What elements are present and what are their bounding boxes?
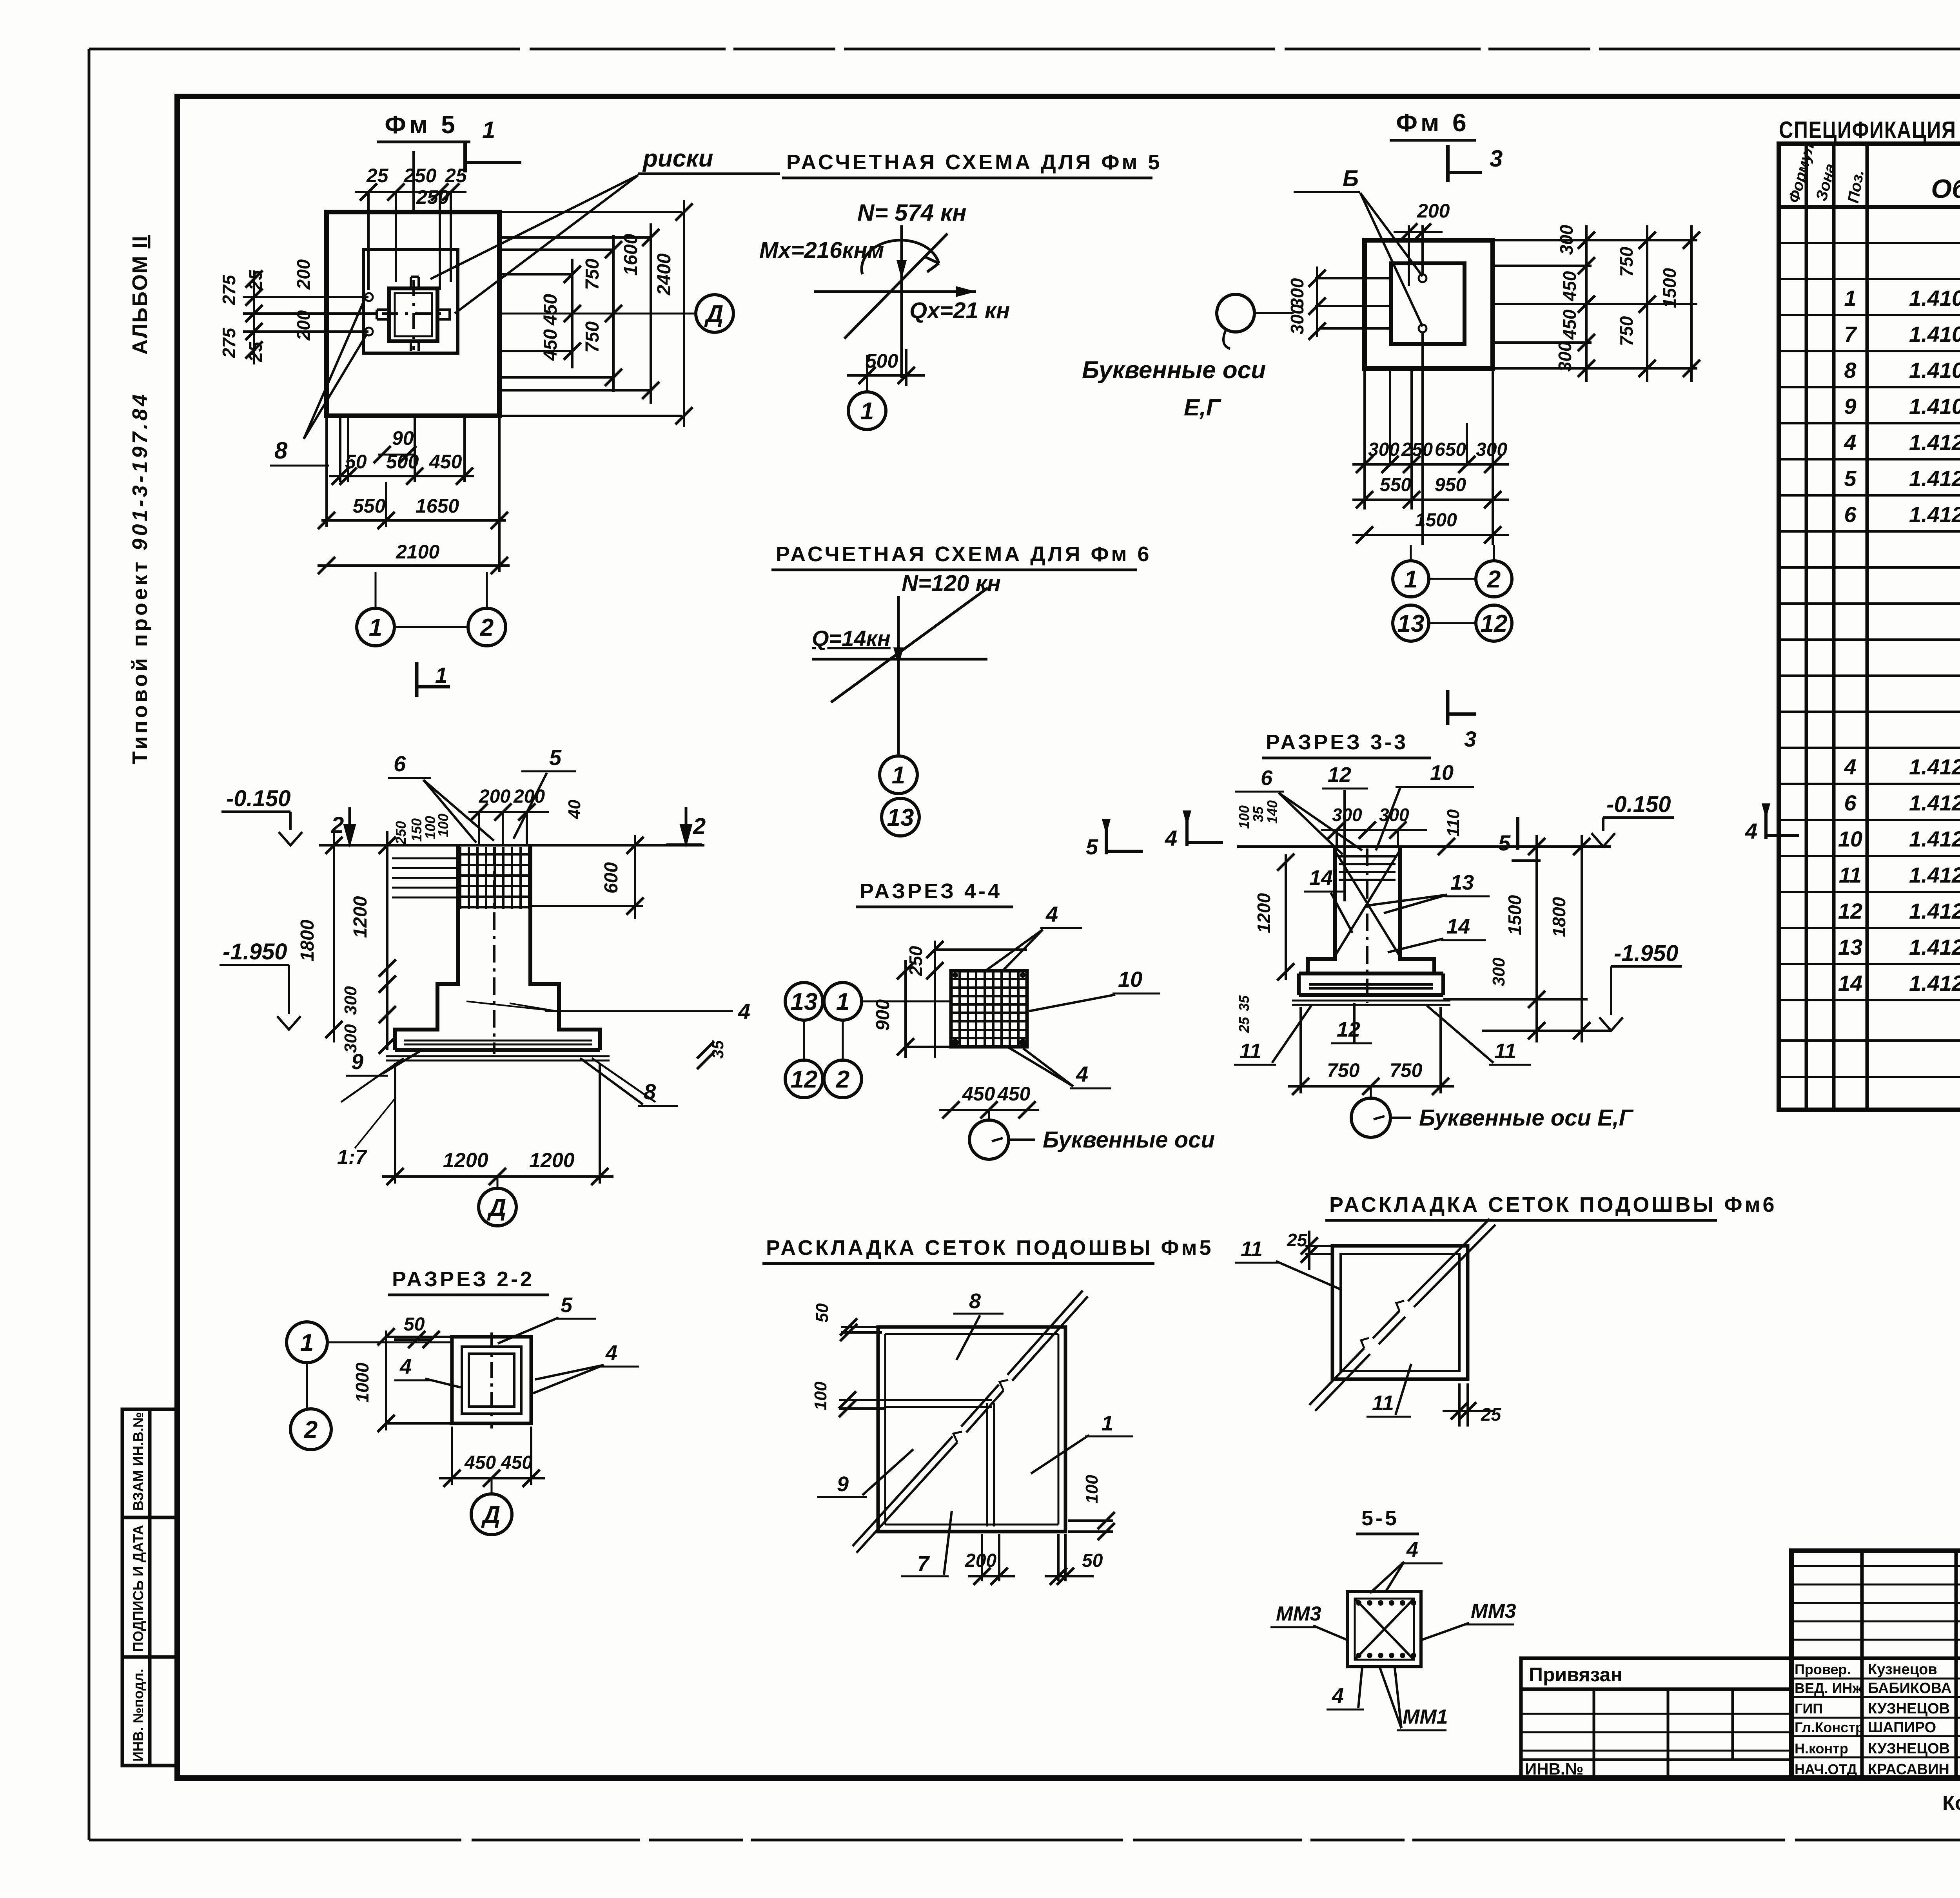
- svg-text:275: 275: [219, 274, 239, 305]
- svg-text:25: 25: [366, 165, 389, 187]
- svg-text:1: 1: [1102, 1412, 1113, 1435]
- svg-text:200: 200: [513, 786, 545, 807]
- svg-text:13: 13: [1397, 610, 1425, 637]
- pit slopes: [341, 1058, 655, 1102]
- svg-text:Привязан: Привязан: [1529, 1664, 1622, 1686]
- svg-text:550: 550: [353, 495, 386, 517]
- svg-text:650: 650: [1435, 439, 1466, 460]
- svg-text:12: 12: [1328, 763, 1351, 787]
- svg-text:1: 1: [482, 117, 495, 143]
- svg-text:100: 100: [1082, 1475, 1102, 1504]
- svg-text:750: 750: [1616, 247, 1637, 277]
- svg-text:4: 4: [1076, 1062, 1088, 1086]
- svg-text:1500: 1500: [1659, 268, 1680, 308]
- svg-text:300: 300: [1287, 278, 1307, 308]
- svg-text:450: 450: [1559, 271, 1580, 301]
- svg-text:Д: Д: [704, 301, 724, 328]
- svg-text:450: 450: [464, 1452, 496, 1473]
- svg-text:1.412.1-4.080: 1.412.1-4.080: [1909, 935, 1960, 959]
- axis circles: [1411, 545, 1494, 623]
- svg-text:35: 35: [1250, 806, 1266, 822]
- svg-text:750: 750: [1616, 316, 1637, 346]
- svg-text:4: 4: [1332, 1684, 1344, 1708]
- svg-text:3: 3: [1490, 145, 1503, 172]
- svg-text:2: 2: [1487, 566, 1501, 593]
- svg-text:450: 450: [1559, 309, 1580, 340]
- svg-text:1.412-1-4.060: 1.412-1-4.060: [1909, 790, 1960, 815]
- svg-text:300: 300: [1489, 957, 1508, 986]
- svg-text:1.412.1-4.080: 1.412.1-4.080: [1909, 971, 1960, 995]
- profile Fm6 section: [1299, 847, 1443, 995]
- svg-text:750: 750: [1390, 1059, 1423, 1081]
- top mesh lines: [1339, 856, 1396, 880]
- right dim chains: [1493, 240, 1697, 368]
- svg-text:1.410-2 Вып.1: 1.410-2 Вып.1: [1909, 286, 1960, 310]
- column centerline: [493, 847, 495, 1054]
- svg-text:8: 8: [644, 1079, 656, 1104]
- svg-text:200: 200: [1417, 200, 1450, 222]
- svg-text:600: 600: [601, 862, 622, 894]
- svg-text:900: 900: [873, 999, 893, 1031]
- svg-text:6: 6: [1261, 766, 1273, 790]
- svg-text:750: 750: [582, 321, 603, 353]
- svg-text:11: 11: [1372, 1391, 1394, 1415]
- svg-text:РАСЧЕТНАЯ СХЕМА ДЛЯ Фм 6: РАСЧЕТНАЯ СХЕМА ДЛЯ Фм 6: [776, 542, 1152, 566]
- svg-text:2: 2: [480, 614, 494, 641]
- table row texts: [1838, 214, 1960, 1072]
- svg-text:2400: 2400: [654, 253, 675, 295]
- svg-text:550: 550: [1380, 475, 1411, 495]
- svg-text:1.412-1/77 Вып.3: 1.412-1/77 Вып.3: [1909, 754, 1960, 779]
- svg-text:1.410-2 Вып.1: 1.410-2 Вып.1: [1909, 358, 1960, 383]
- svg-text:25: 25: [245, 341, 266, 363]
- svg-text:ВЗАМ ИН.В.№: ВЗАМ ИН.В.№: [130, 1412, 146, 1511]
- svg-text:АЛЬБОМ II: АЛЬБОМ II: [128, 235, 152, 355]
- svg-text:ВЕД. ИНж: ВЕД. ИНж: [1795, 1680, 1863, 1696]
- svg-text:1: 1: [1844, 286, 1856, 310]
- svg-text:14: 14: [1838, 971, 1862, 995]
- specification table grid: [1779, 144, 1960, 1110]
- svg-text:1200: 1200: [1254, 893, 1274, 933]
- svg-text:450: 450: [540, 329, 561, 361]
- svg-text:450: 450: [962, 1083, 995, 1105]
- plan Fm6 slab: [1365, 240, 1493, 368]
- svg-text:100: 100: [435, 814, 451, 837]
- svg-text:1200: 1200: [350, 896, 371, 938]
- svg-text:ИНВ. №подл.: ИНВ. №подл.: [130, 1669, 146, 1762]
- svg-text:ММ3: ММ3: [1276, 1603, 1321, 1625]
- svg-text:1200: 1200: [443, 1149, 488, 1172]
- svg-text:250: 250: [393, 821, 409, 845]
- svg-text:12: 12: [1481, 610, 1508, 637]
- svg-text:275: 275: [219, 327, 239, 358]
- left 300 300 dims: [1315, 278, 1391, 328]
- svg-text:1.412-2 Вып.1: 1.412-2 Вып.1: [1909, 863, 1960, 887]
- svg-text:РАЗРЕЗ 4-4: РАЗРЕЗ 4-4: [860, 879, 1002, 903]
- svg-text:1500: 1500: [1504, 895, 1525, 935]
- svg-text:11: 11: [1839, 863, 1862, 887]
- svg-text:450: 450: [540, 294, 561, 326]
- svg-text:7: 7: [917, 1552, 930, 1575]
- svg-text:12: 12: [791, 1066, 818, 1093]
- svg-text:12: 12: [1838, 899, 1862, 923]
- svg-text:Qх=21 кн: Qх=21 кн: [909, 298, 1010, 323]
- svg-text:1.412-1/77 Вып.3: 1.412-1/77 Вып.3: [1909, 466, 1960, 491]
- svg-text:4: 4: [1045, 902, 1058, 926]
- svg-text:риски: риски: [642, 145, 713, 172]
- svg-text:4: 4: [1844, 754, 1856, 779]
- svg-text:Н.контр: Н.контр: [1795, 1740, 1848, 1757]
- bottom dims Fm6 plan: [1365, 368, 1493, 545]
- svg-text:9: 9: [351, 1049, 363, 1074]
- svg-text:Фм 6: Фм 6: [1396, 109, 1469, 137]
- svg-text:РАЗРЕЗ 3-3: РАЗРЕЗ 3-3: [1266, 731, 1408, 754]
- svg-text:8: 8: [274, 437, 288, 464]
- svg-text:1: 1: [836, 988, 849, 1015]
- svg-text:2: 2: [693, 814, 706, 839]
- svg-text:9: 9: [837, 1472, 849, 1496]
- svg-text:1200: 1200: [529, 1149, 575, 1172]
- svg-text:5: 5: [561, 1293, 573, 1317]
- svg-text:1.410-2 Вып.1: 1.410-2 Вып.1: [1909, 394, 1960, 419]
- svg-text:2: 2: [331, 812, 344, 838]
- svg-text:250: 250: [1401, 439, 1433, 460]
- svg-text:90: 90: [392, 427, 414, 449]
- svg-text:КУЗНЕЦОВ: КУЗНЕЦОВ: [1868, 1700, 1950, 1717]
- svg-text:100: 100: [811, 1381, 830, 1410]
- svg-text:ПОДПИСЬ И ДАТА: ПОДПИСЬ И ДАТА: [130, 1525, 146, 1652]
- svg-text:КУЗНЕЦОВ: КУЗНЕЦОВ: [1868, 1740, 1950, 1757]
- privyazan box: [1521, 1658, 1791, 1778]
- moment arc: [862, 240, 939, 274]
- corner dots: [952, 972, 1026, 1046]
- right dim chains: [499, 212, 682, 416]
- axis D: [274, 313, 696, 315]
- svg-text:6: 6: [1844, 502, 1857, 527]
- svg-text:4: 4: [1165, 826, 1177, 850]
- svg-text:7: 7: [1844, 322, 1857, 346]
- svg-text:25: 25: [1236, 1017, 1252, 1033]
- svg-text:50: 50: [1082, 1550, 1103, 1571]
- grid mesh square: [951, 971, 1027, 1047]
- svg-text:450: 450: [429, 451, 462, 473]
- svg-text:14: 14: [1446, 915, 1470, 938]
- svg-text:Буквенные оси Е,Г: Буквенные оси Е,Г: [1419, 1105, 1634, 1131]
- column mesh grid: [459, 847, 530, 909]
- small ladder dims left of column: [392, 858, 458, 897]
- svg-text:БАБИКОВА: БАБИКОВА: [1868, 1680, 1952, 1697]
- svg-text:13: 13: [887, 804, 914, 831]
- svg-text:300: 300: [1556, 225, 1577, 255]
- svg-text:Кузнецов: Кузнецов: [1868, 1661, 1937, 1678]
- svg-text:N= 574 кн: N= 574 кн: [857, 199, 966, 226]
- svg-text:Q=14кн: Q=14кн: [812, 626, 891, 651]
- svg-text:ММ1: ММ1: [1403, 1706, 1448, 1728]
- svg-text:750: 750: [582, 259, 603, 290]
- svg-text:1.412.1-4.060: 1.412.1-4.060: [1909, 502, 1960, 527]
- svg-text:40: 40: [565, 799, 584, 819]
- svg-text:СПЕЦИФИКАЦИЯ ЭЛЕМЕНТОВ МОНОЛИТ: СПЕЦИФИКАЦИЯ ЭЛЕМЕНТОВ МОНОЛИТНОЙ КОНСТР…: [1779, 117, 1960, 143]
- section Fm5: top level line: [319, 844, 704, 847]
- svg-text:2100: 2100: [396, 541, 439, 563]
- svg-text:11: 11: [1240, 1039, 1261, 1063]
- svg-text:10: 10: [1430, 761, 1454, 785]
- svg-text:1.412-1/77 Вып.3: 1.412-1/77 Вып.3: [1909, 430, 1960, 455]
- svg-text:1: 1: [435, 663, 447, 687]
- svg-text:1: 1: [369, 614, 382, 641]
- svg-text:300: 300: [1476, 439, 1507, 460]
- svg-text:4: 4: [1406, 1538, 1418, 1561]
- X bracing in column: [1335, 850, 1400, 956]
- inner dividers: [884, 1400, 994, 1526]
- svg-text:4: 4: [399, 1355, 412, 1378]
- svg-text:1500: 1500: [1415, 510, 1457, 531]
- svg-text:200: 200: [293, 259, 314, 290]
- big square: [878, 1327, 1065, 1532]
- svg-text:РАСКЛАДКА СЕТОК ПОДОШВЫ Фм5: РАСКЛАДКА СЕТОК ПОДОШВЫ Фм5: [766, 1236, 1214, 1260]
- plan Fm5 slab outline: [327, 212, 499, 416]
- svg-text:25: 25: [1481, 1404, 1502, 1425]
- svg-text:ММ3: ММ3: [1471, 1600, 1516, 1622]
- svg-text:Буквенные оси: Буквенные оси: [1082, 357, 1266, 384]
- svg-text:11: 11: [1241, 1237, 1263, 1261]
- svg-text:750: 750: [1327, 1059, 1360, 1081]
- section Fm5 profile: [395, 845, 600, 1050]
- svg-text:300: 300: [341, 986, 360, 1015]
- svg-text:10: 10: [1118, 967, 1142, 992]
- centerline: [1366, 848, 1368, 1003]
- svg-text:10: 10: [1838, 827, 1862, 851]
- svg-text:4: 4: [605, 1341, 617, 1365]
- svg-text:ИНВ.№: ИНВ.№: [1525, 1760, 1583, 1778]
- letter axes note: [1217, 294, 1254, 332]
- svg-text:6: 6: [394, 751, 406, 776]
- svg-text:25: 25: [245, 270, 266, 291]
- svg-text:1: 1: [892, 762, 905, 789]
- svg-text:НАЧ.ОТД: НАЧ.ОТД: [1795, 1761, 1857, 1777]
- svg-text:-1.950: -1.950: [223, 939, 287, 964]
- column center dashes: [382, 280, 445, 350]
- svg-text:2: 2: [836, 1066, 849, 1093]
- top extension lines: [368, 151, 451, 290]
- svg-text:250: 250: [403, 165, 437, 187]
- svg-text:5: 5: [1086, 834, 1098, 859]
- svg-text:200: 200: [965, 1550, 996, 1571]
- svg-text:13: 13: [791, 988, 818, 1015]
- top line: [1237, 845, 1611, 848]
- bottom dims 1200 1200: [395, 1063, 600, 1184]
- section mark 1 (bottom): [417, 662, 450, 697]
- svg-text:500: 500: [866, 350, 898, 372]
- svg-text:950: 950: [1435, 475, 1466, 495]
- svg-text:300: 300: [1287, 304, 1307, 334]
- svg-text:6: 6: [1844, 790, 1857, 815]
- svg-text:1.412.1-4.080: 1.412.1-4.080: [1909, 899, 1960, 923]
- svg-text:50: 50: [813, 1303, 832, 1322]
- svg-text:13: 13: [1450, 871, 1474, 894]
- svg-text:1: 1: [860, 398, 874, 425]
- svg-text:5: 5: [549, 745, 562, 770]
- title block: [1791, 1551, 1960, 1778]
- axis circles 1 2: [376, 572, 487, 627]
- svg-text:Е,Г: Е,Г: [1184, 394, 1222, 421]
- svg-text:Буквенные оси: Буквенные оси: [1043, 1127, 1215, 1153]
- svg-text:5-5: 5-5: [1361, 1506, 1399, 1530]
- svg-text:35: 35: [1236, 995, 1252, 1011]
- svg-text:ГИП: ГИП: [1795, 1700, 1823, 1717]
- svg-text:1.412.1-4.050: 1.412.1-4.050: [1909, 827, 1960, 851]
- svg-text:Обозначение: Обозначение: [1931, 174, 1960, 204]
- svg-text:Фм 5: Фм 5: [385, 111, 458, 139]
- svg-text:500: 500: [386, 451, 419, 473]
- 450 450 dim: [452, 1427, 531, 1485]
- base mesh: [404, 1041, 592, 1044]
- svg-text:1000: 1000: [352, 1362, 372, 1403]
- svg-text:11: 11: [1494, 1039, 1516, 1063]
- svg-text:Б: Б: [1343, 166, 1359, 191]
- svg-text:140: 140: [1264, 800, 1280, 824]
- svg-text:300: 300: [1332, 805, 1362, 825]
- svg-text:1:7: 1:7: [337, 1146, 367, 1169]
- svg-text:1600: 1600: [621, 234, 641, 276]
- svg-text:Копировал: Коршунова: Копировал: Коршунова: [1942, 1792, 1960, 1815]
- svg-text:1650: 1650: [416, 495, 459, 517]
- left margin stamp boxes: [122, 1409, 177, 1766]
- svg-text:N=120 кн: N=120 кн: [902, 571, 1001, 596]
- plan Fm5 middle step: [363, 250, 458, 353]
- square formwork: [452, 1337, 531, 1423]
- force axes: [900, 225, 903, 378]
- svg-text:1800: 1800: [297, 919, 318, 961]
- svg-text:Провер.: Провер.: [1795, 1661, 1851, 1677]
- left margin rotated captions: [128, 235, 152, 764]
- svg-text:4: 4: [738, 999, 750, 1024]
- svg-text:50: 50: [404, 1314, 425, 1335]
- base mesh: [1309, 984, 1433, 988]
- dim 750 750: [1301, 1007, 1441, 1093]
- svg-text:Д: Д: [481, 1501, 501, 1528]
- svg-text:13: 13: [1838, 935, 1862, 959]
- svg-text:1800: 1800: [1549, 897, 1569, 937]
- svg-text:РАСЧЕТНАЯ СХЕМА ДЛЯ Фм 5: РАСЧЕТНАЯ СХЕМА ДЛЯ Фм 5: [786, 150, 1162, 174]
- svg-text:-1.950: -1.950: [1614, 941, 1678, 966]
- svg-text:300: 300: [341, 1024, 360, 1053]
- svg-text:Типовой проект 901-3-197.84: Типовой проект 901-3-197.84: [128, 392, 152, 764]
- svg-text:25: 25: [1287, 1230, 1308, 1250]
- svg-text:ШАПИРО: ШАПИРО: [1868, 1719, 1936, 1736]
- svg-text:300: 300: [1555, 341, 1575, 372]
- svg-text:1: 1: [300, 1329, 314, 1356]
- column stubs and anchor circles: [377, 277, 450, 351]
- svg-text:-0.150: -0.150: [226, 786, 290, 811]
- svg-text:250: 250: [906, 946, 926, 976]
- section mark 3 (bottom): [1448, 690, 1476, 725]
- svg-text:450: 450: [997, 1083, 1031, 1105]
- svg-text:1.410-2 Вып.1: 1.410-2 Вып.1: [1909, 322, 1960, 346]
- svg-text:РАЗРЕЗ 2-2: РАЗРЕЗ 2-2: [392, 1267, 534, 1291]
- svg-text:100: 100: [1236, 805, 1252, 829]
- axis circles left: [785, 983, 823, 1020]
- svg-text:-0.150: -0.150: [1606, 792, 1671, 817]
- svg-text:8: 8: [1844, 358, 1857, 383]
- svg-text:Д: Д: [487, 1194, 506, 1221]
- svg-text:14: 14: [1309, 866, 1333, 890]
- svg-text:2: 2: [304, 1416, 318, 1443]
- svg-text:Гл.Констр: Гл.Констр: [1795, 1719, 1864, 1735]
- svg-text:5: 5: [1844, 466, 1857, 491]
- diagonal with breaks: [857, 1296, 1088, 1553]
- svg-text:КРАСАВИН: КРАСАВИН: [1868, 1761, 1949, 1778]
- svg-text:4: 4: [1745, 819, 1757, 843]
- diagonals with breaks: [1309, 1219, 1490, 1405]
- svg-text:450: 450: [501, 1452, 532, 1473]
- title block texts: [1795, 1568, 1960, 1822]
- svg-text:РАСКЛАДКА СЕТОК ПОДОШВЫ Фм6: РАСКЛАДКА СЕТОК ПОДОШВЫ Фм6: [1329, 1193, 1777, 1216]
- svg-text:9: 9: [1844, 394, 1856, 419]
- svg-text:12: 12: [1337, 1018, 1360, 1041]
- plan Fm5 column: [389, 288, 437, 341]
- svg-text:3: 3: [1464, 727, 1476, 751]
- svg-text:5: 5: [1498, 830, 1511, 855]
- svg-text:200: 200: [479, 786, 510, 807]
- svg-text:1: 1: [1404, 566, 1417, 593]
- svg-text:110: 110: [1444, 809, 1463, 837]
- svg-text:4: 4: [1844, 430, 1856, 455]
- svg-text:8: 8: [969, 1289, 981, 1313]
- table header texts: [1931, 174, 1960, 204]
